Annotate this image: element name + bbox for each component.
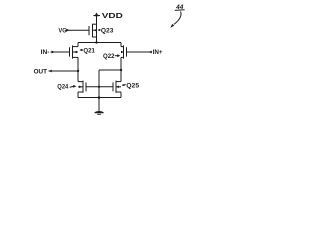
IN- wire with arrow bbox=[51, 51, 70, 54]
transistor Q21 bbox=[70, 45, 79, 58]
ground bbox=[95, 111, 104, 114]
wire Q24 source down to rail bbox=[77, 92, 79, 98]
Q23 label leader bbox=[98, 29, 101, 31]
svg-text:IN-: IN- bbox=[41, 49, 50, 56]
OUT wire with arrow bbox=[48, 70, 78, 73]
wire Q22 drain up to rail bbox=[120, 43, 122, 47]
svg-text:IN+: IN+ bbox=[153, 49, 163, 56]
svg-text:Q25: Q25 bbox=[126, 82, 139, 89]
node gate tie junction bbox=[98, 86, 100, 88]
svg-text:Q23: Q23 bbox=[101, 27, 114, 34]
wire Q21 drain up to rail bbox=[77, 43, 79, 47]
wire Q22 source down to Q25 bbox=[120, 57, 122, 81]
transistor Q23 bbox=[89, 24, 97, 37]
IN+ wire with arrow bbox=[127, 51, 152, 54]
wire mirror node jog bbox=[99, 70, 121, 111]
svg-text:Q22: Q22 bbox=[103, 53, 115, 60]
Q25 label leader bbox=[122, 84, 126, 86]
transistor Q22 (mirrored) bbox=[121, 45, 127, 58]
node drain junction bbox=[120, 69, 122, 71]
wire Q23 drain to common rail bbox=[96, 37, 98, 43]
Q21 label leader bbox=[79, 49, 83, 51]
node OUT junction bbox=[77, 70, 79, 72]
svg-text:OUT: OUT bbox=[34, 68, 47, 75]
common source rail bbox=[78, 42, 121, 44]
svg-text:Q21: Q21 bbox=[83, 47, 95, 54]
wire Q21 source down to Q24 bbox=[77, 57, 79, 81]
wire Q25 source down to rail bbox=[120, 92, 122, 98]
svg-text:VDD: VDD bbox=[102, 11, 124, 20]
VG wire with arrow bbox=[66, 29, 89, 32]
svg-text:Q24: Q24 bbox=[57, 84, 69, 91]
node ground junction bbox=[98, 96, 101, 99]
Q24 label leader bbox=[70, 85, 77, 88]
transistor Q25 bbox=[113, 81, 121, 93]
svg-text:VG: VG bbox=[59, 27, 67, 34]
transistor Q24 (mirrored) bbox=[78, 81, 86, 93]
node rail-Q23 junction bbox=[95, 41, 97, 43]
leader arrow for 44 bbox=[170, 11, 181, 27]
VDD power symbol bbox=[93, 13, 100, 25]
gate tie wire Q24-Q25 bbox=[86, 86, 113, 88]
bottom rail bbox=[78, 97, 121, 99]
Q22 label leader bbox=[115, 54, 121, 57]
